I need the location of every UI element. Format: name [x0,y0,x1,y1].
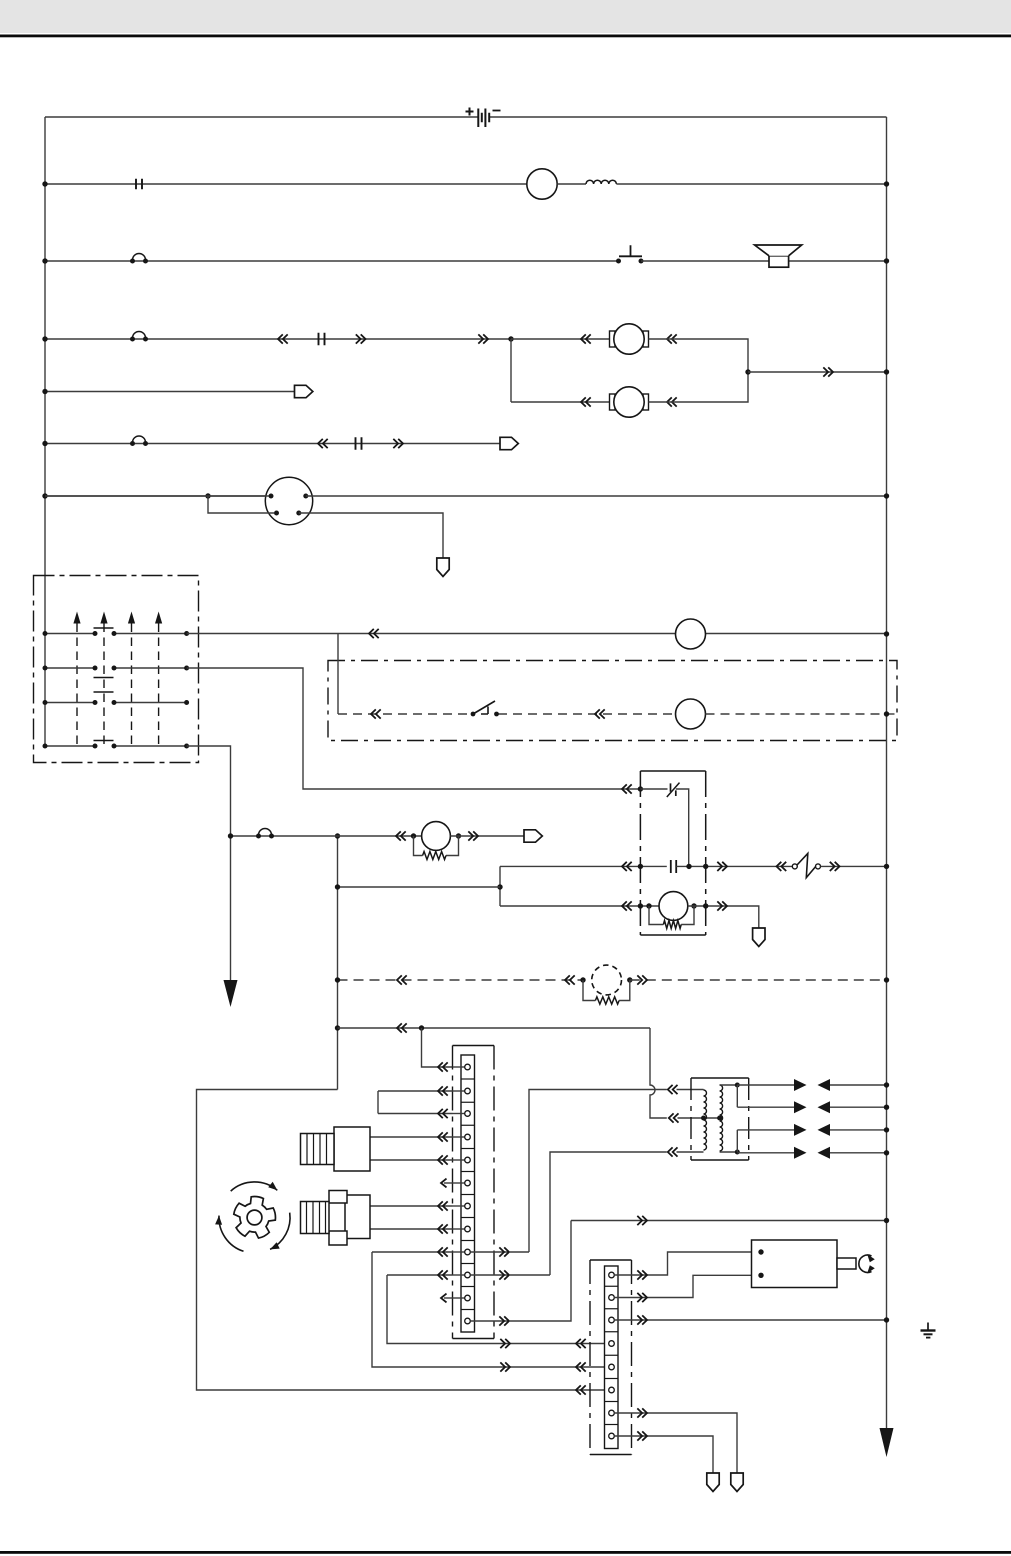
wire: TB1 terminal right exit [470,1251,509,1253]
wire: top rail left of battery [45,116,478,118]
pump motor M3 [422,822,451,851]
wire: coil to right bus [616,183,886,185]
connector pin (<<) [438,1155,448,1164]
wire: magneto row 2 segment b [114,667,187,669]
connector plug P7 (bullet, down) [707,1473,719,1492]
wire: jumper loop TB1 t2-t3 [378,1091,453,1114]
wire: HT lead 3 [737,1129,794,1131]
horn LS1 (speaker symbol) [769,256,789,267]
safety lanyard circuit enclosure (chain line) [328,661,897,741]
magneto-distributor enclosure (chain line) [34,576,199,763]
wire: branch from gauge row into safety circuit [337,634,339,714]
contact dot [112,700,117,705]
junction on right bus [884,493,889,498]
wire: TB2 t1 to starter relay + [614,1252,761,1275]
connector pin (<<) [438,1132,448,1141]
wire: harness return to terminal strip 2 row 6 [197,1090,609,1391]
junction on right bus [884,1082,889,1087]
spark output lead 3 (to plug, dashed with up arrow) [128,612,135,624]
junction on left bus [42,181,47,186]
TB1 terminal 12 [465,1318,471,1324]
wire: motors to right bus [748,371,887,373]
wire: t9 to TB2 t5 [372,1252,609,1367]
connector pin (>>) [637,1216,647,1225]
TB1 cell divider [461,1240,475,1242]
TB1 cell divider [461,1171,475,1173]
ground arrow (engine ground) [224,980,238,1007]
wire: connector C1 to right bus [306,495,887,497]
connector pin (>>) [468,831,478,840]
wire into connector pin 1 [45,495,269,497]
wire: pump motor to plug [450,835,524,837]
node on module boundary [638,903,643,908]
junction on right bus [884,1150,889,1155]
terminal strip TB1 outline (chain line sides) [453,1046,495,1339]
junction on left bus [43,631,48,636]
wire: into coil primary top [677,1089,704,1091]
wire: safety circuit dashed segment b [498,713,675,715]
node: terminal block tap [419,1025,424,1030]
wire: strip1 t9 up to ignition coil row 1 [529,1090,667,1253]
wire: into coil center tap [678,1117,720,1119]
node on module boundary [703,864,708,869]
rotation arrow arc (bottom right) [270,1213,290,1250]
pin 3 of connector C1 [274,511,279,516]
wire: magneto row 1 segment a [45,633,95,635]
row output dot [184,744,189,749]
junction on right bus [884,369,889,374]
junction on right bus [884,864,889,869]
connector plug P3 (bullet, down) [437,558,449,577]
TB1 terminal 1 [453,1066,465,1068]
node: trigger feed [497,884,502,889]
starter motor M4 [752,1240,838,1288]
connector pin (<<) [438,1109,448,1118]
wire [444,1182,453,1184]
condenser C2 (capacitor plates) [671,860,676,873]
node on kill lead [228,833,233,838]
battery polarity label + [466,108,474,116]
TB2 cell divider [605,1424,619,1426]
contact dot [112,631,117,636]
connector pin (>>) [637,1408,647,1417]
connector plug P4 (bullet, down) [753,928,765,947]
contact dot [93,666,98,671]
ground symbol (chassis) [921,1323,936,1338]
wire: feed from harness to trigger rows [338,886,501,888]
connector plug P2 (bullet) [500,437,518,449]
node: motors common [745,369,750,374]
wire: points to condenser node [676,789,689,866]
node: harness top [335,833,340,838]
connector pin (>>) [637,1315,647,1324]
distributor cap contact bar 4 [94,740,114,742]
connector pin (<<) [622,862,632,871]
junction on right bus [884,1317,889,1322]
TB2 terminal 6 [609,1387,615,1393]
spark plug gap 4 [794,1147,807,1159]
pin 2 of connector C1 [303,494,308,499]
wire: magneto row 4 segment a [45,745,95,747]
node on module boundary [703,903,708,908]
junction on left bus [43,744,48,749]
connector pin (<<) [581,397,591,406]
terminal strip TB2 outline (chain line sides) [590,1260,632,1455]
junction on left bus [42,336,47,341]
connector pin (<<) [581,334,591,343]
wire: magneto row 2 to ignition relay [187,668,641,789]
wire: TB2 t8 to plug [614,1436,713,1473]
junction on left bus [42,441,47,446]
wire: harness to pump motor [338,835,422,837]
TB1 terminal 10 [453,1274,465,1276]
junction on left bus [42,493,47,498]
contact dot [93,631,98,636]
wire [444,1297,453,1299]
wire: t12 up to bus row [509,1221,571,1322]
starter terminal - [758,1273,763,1278]
connector pin (<<) [438,1086,448,1095]
terminal strip TB2 body [605,1266,619,1449]
breaker points contact with slash (module internal) [667,783,680,797]
TB2 terminal 1 [609,1272,615,1278]
rotation arrow arc (left) [219,1216,244,1252]
junction on left bus [43,666,48,671]
connector pin (<<) [667,334,677,343]
wire: TB1 terminal right exit [470,1274,509,1276]
TB2 terminal 3 [609,1317,615,1323]
wire: HT link top [736,1085,738,1107]
TB1 cell divider [461,1286,475,1288]
wire: spark gap 2 to right bus [830,1106,887,1108]
spark plug gap 3 [794,1124,807,1136]
connector pin (<<) [396,831,406,840]
TB1 cell divider [461,1309,475,1311]
junction on right bus [884,258,889,263]
spark plug gap 1 [794,1079,807,1091]
wire: t12 row to right bus [571,1220,887,1222]
TB1 cell divider [461,1263,475,1265]
TB1 terminal 6 [453,1182,465,1184]
wire: sensor S4 lead a [370,1136,453,1138]
node: exciter - lead [691,903,696,908]
row output dot [184,631,189,636]
pin 4 of connector C1 [296,511,301,516]
row output dot [184,666,189,671]
node: HT out top [735,1083,740,1088]
contact dot [112,744,117,749]
connector pin (<<) [777,862,787,871]
node: harness tap 3 [335,1025,340,1030]
connector plug P1 (bullet) [295,385,313,397]
emergency stop (lanyard) switch S3 [792,853,820,877]
TB1 cell divider [461,1101,475,1103]
junction on right bus [884,1218,889,1223]
connector pin (>>) [637,1293,647,1302]
node: optional device - [627,977,632,982]
TB1 cell divider [461,1078,475,1080]
TB1 terminal 2 [453,1090,465,1092]
junction on right bus [884,631,889,636]
inductor coil L1 (rectifier/lighting coil) [586,180,616,184]
connector pin (>>) [499,1316,509,1325]
connector plug P5 (bullet) [524,830,542,842]
ignition coil T1 enclosure [691,1078,749,1160]
circuit breaker CB1 [130,254,148,264]
TB1 terminal 8 [453,1228,465,1230]
connector pin (<<) [668,1085,678,1094]
wire: t9 left lead [372,1251,453,1253]
wire: HT lead 4 [737,1152,794,1154]
TB1 terminal 4 [453,1136,465,1138]
wire: t9 right exit [509,1251,529,1253]
wire: TB2 t3 to right bus [614,1319,886,1321]
node on module boundary [638,864,643,869]
node: primary tap [701,1116,706,1121]
wire: magneto row 3 segment b [114,702,187,704]
wire: into coil primary bottom [677,1151,704,1153]
trigger wheel hub hole [247,1210,262,1225]
wire: sensor S4 lead b [370,1159,453,1161]
TB2 terminal 5 [609,1364,615,1370]
wire: condenser to stop switch [676,865,792,867]
node: exciter + lead [646,903,651,908]
TB1 terminal 5 [453,1159,465,1161]
unterminated lead arrow [441,1179,447,1188]
wire: spark gap 3 to right bus [830,1129,887,1131]
TB2 cell divider [605,1308,619,1310]
TB1 cell divider [461,1148,475,1150]
trim motor M1 [610,324,649,354]
wire: secondary top out [720,1084,738,1086]
wire: link trigger rows [499,866,501,906]
wire: TB2 t7 to plug [614,1413,737,1473]
connector pin (<<) [397,975,407,984]
wire: sender circuit from bus [45,495,271,497]
contact dot [93,744,98,749]
node: pump + lead [411,833,416,838]
spark output lead 2 (to plug, dashed with up arrow) [100,612,107,624]
connector pin (>>) [478,334,488,343]
wire: main harness drop [337,836,339,1090]
connector pin (<<) [565,975,575,984]
junction on right bus [884,181,889,186]
connector pin (>>) [717,862,727,871]
wire: TB1 terminal right exit [470,1320,509,1322]
wire: magneto kill lead to harness [231,835,338,837]
TB1 cell divider [461,1194,475,1196]
wire: strip1 t10 up to ignition coil row 3 [550,1152,667,1275]
wire: secondary bottom out [720,1151,738,1153]
connector pin (<<) [576,1362,586,1371]
fuse F3 [356,437,362,449]
coil T1 primary winding [704,1090,707,1150]
coil T1 secondary winding [720,1085,723,1151]
starter output shaft [837,1258,856,1269]
wire: safety circuit to box edge (dashed) [706,713,898,715]
node: ignition feed into module [638,786,643,791]
TB1 terminal 9 [453,1251,465,1253]
battery polarity label - [493,110,501,112]
page header bar [0,0,1011,33]
wire: accessory feed [45,391,295,393]
connector pin (>>) [500,1339,510,1348]
wire: motor 2 to common node [649,372,749,402]
junction on right bus [884,1127,889,1132]
fuse F1 (20A) [136,179,142,189]
stator/alternator G1 [527,169,557,199]
circuit breaker CB2 [130,332,148,342]
junction on left bus [42,258,47,263]
connector pin (<<) [438,1062,448,1071]
TB2 terminal 4 [609,1341,615,1347]
circuit breaker CB3 [130,436,148,446]
junction on right bus [884,711,889,716]
optional gauge A3 (dashed) [592,965,622,995]
starter rotation symbol [859,1255,872,1272]
contact dot [112,666,117,671]
wire: resistor leg left [649,906,663,925]
wire: accessory feed 2 [45,443,500,445]
sensor S4 (temperature sender) [301,1127,371,1171]
wire: sensor S5 lead b [370,1228,453,1230]
connector pin (<<) [622,901,632,910]
wire: charging circuit from bus to stator [45,183,527,185]
distributor cap contact bar 3 [94,691,114,693]
wire: branch to motor 2 [510,339,512,402]
connector pin (<<) [668,1147,678,1156]
wire: tap to terminal 1 [422,1028,453,1067]
wire: TB2 t2 to starter relay - [614,1275,761,1297]
TB1 cell divider [461,1217,475,1219]
spark output lead 1 (to plug, dashed with up arrow) [73,612,80,624]
rotation arrow arc (top) [231,1182,278,1191]
TB2 terminal 8 [609,1433,615,1439]
TB2 terminal 2 [609,1295,615,1301]
ignition module enclosure [640,771,705,935]
distributor cap contact bar 2 [94,677,114,679]
wire: resistor leg right [681,906,694,925]
wire: trigger row to condenser [500,865,667,867]
wire: magneto row 3 segment a [45,702,95,704]
connector pin (<<) [278,334,288,343]
wire: module internal feed [640,788,667,790]
TB1 cell divider [461,1124,475,1126]
wire: resistor leg right [619,980,630,1001]
node: optional device + [580,977,585,982]
connector pin (<<) [595,709,605,718]
wire: spark gap 4 to right bus [830,1152,887,1154]
junction on left bus [42,389,47,394]
wire: magneto row 4 down to ground arrow [187,746,231,981]
wire: to trim motor 1 [511,338,614,340]
wire: stator to rectifier coil [557,183,586,185]
trigger wheel (gear) [234,1197,276,1239]
connector pin (>>) [356,334,366,343]
fuse F2 [319,333,325,345]
wire: connector pin 4 to plug [299,513,443,558]
meter/lamp A2 [676,699,706,729]
node: trim motor branch [508,336,513,341]
wire: spark gap 1 to right bus [830,1084,887,1086]
wire: motor 1 to common node [649,339,749,372]
connector pin (<<) [667,397,677,406]
TB1 terminal 11 [453,1297,465,1299]
wire: resistor leg left [583,980,595,1001]
wire: HT lead 1 [737,1084,794,1086]
connector pin (>>) [499,1270,509,1279]
connector pin (>>) [393,439,403,448]
TB2 cell divider [605,1401,619,1403]
circuit breaker CB4 [256,829,274,839]
node: points junction [686,864,691,869]
connector pin (<<) [397,1023,407,1032]
wire: top rail right of battery [490,116,887,118]
node: sender branch [205,493,210,498]
row output dot [184,700,189,705]
resistor R1 element [663,921,681,929]
wire: trim circuit from bus [45,338,511,340]
wire: HT lead 2 [737,1106,794,1108]
node: pump - lead [456,833,461,838]
connector pin (<<) [318,439,328,448]
distributor cap contact bar 1 [94,627,114,629]
node: harness tap 2 [335,977,340,982]
wire: branch into connector pin 3 [208,496,274,513]
footer rule [0,1551,1011,1554]
connector pin (<<) [438,1270,448,1279]
wire: coil primary feed with crossover hop [650,1028,667,1118]
wire: HT link bottom [736,1130,738,1152]
wire: magneto row 2 segment a [45,667,95,669]
TB1 terminal 7 [453,1205,465,1207]
exciter coil E1 [659,892,688,921]
wire: sensor S5 lead a [370,1205,453,1207]
ground-return arrow (bottom of right bus) [880,1428,894,1457]
connector pin (<<) [669,1113,679,1122]
connector pin (>>) [830,862,840,871]
TB2 terminal 7 [609,1410,615,1416]
connector pin (<<) [371,709,381,718]
battery B1 [478,109,489,128]
wire: t10 to TB2 t4 [387,1275,609,1344]
spark output lead 4 (to plug, dashed with up arrow) [155,612,162,624]
junction on left bus [43,700,48,705]
wire: to trim motor 2 [511,401,614,403]
connector pin (>>) [499,1247,509,1256]
header rule [0,35,1011,38]
wire: right ground bus [886,117,888,1432]
wire: safety circuit (dashed) [338,713,471,715]
trim motor M2 [610,387,649,417]
node: HT out bottom [735,1150,740,1155]
connector pin (<<) [438,1224,448,1233]
connector pin (<<) [438,1201,448,1210]
wire: optional sender circuit (dashed) [338,979,584,981]
wire: stop switch to right bus [821,865,887,867]
connector pin (<<) [576,1339,586,1348]
resistor R3 element [423,852,446,860]
wire: t10 left lead [387,1274,453,1276]
wire: left supply bus [44,117,46,746]
connector pin (<<) [438,1247,448,1256]
wire: trigger row 2 to exciter [500,905,659,907]
wire: harness to ignition coil primary [338,1027,651,1029]
connector pin (>>) [637,975,647,984]
wire: magneto row 4 segment b [114,745,187,747]
TB2 cell divider [605,1354,619,1356]
safety switch S2 (normally-open blade) [471,701,499,716]
